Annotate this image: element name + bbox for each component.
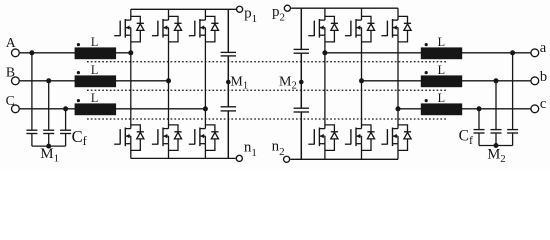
terminal n2 (right DC negative): [284, 156, 290, 162]
svg-text:Cf: Cf: [72, 127, 88, 148]
wire: left bridge negative rail (to n1): [131, 157, 236, 159]
terminal c (output phase c): [531, 105, 539, 113]
svg-text:L: L: [438, 63, 445, 77]
inductor L (input, phase A): [75, 43, 117, 59]
svg-text:L: L: [438, 91, 445, 105]
transistor Q11 (right bridge leg 2 bottom) (MOSFET): [345, 81, 362, 160]
node M2 (right DC-link midpoint): [299, 80, 304, 85]
diode D2 (antiparallel): [169, 16, 182, 42]
capacitor Cf (output, phase a): [507, 130, 518, 146]
transistor Q1 (left bridge leg 1 top) (MOSFET): [114, 9, 131, 53]
transistor Q6 (left bridge leg 3 bottom) (MOSFET): [189, 109, 206, 159]
svg-text:n2: n2: [272, 139, 285, 158]
wire phase B from terminal B to left bridge leg: [19, 80, 168, 82]
dashed line (magnetic coupling path, row B): [87, 89, 447, 91]
junction: phase B at left bridge leg 2: [166, 78, 171, 83]
svg-text:c: c: [540, 96, 546, 112]
dashed line (magnetic coupling path, row A): [87, 61, 447, 63]
svg-text:Cf: Cf: [459, 127, 473, 146]
node M2 (output filter star point): [494, 143, 499, 148]
svg-text:A: A: [6, 35, 16, 50]
svg-text:M1: M1: [40, 146, 59, 164]
svg-text:M2: M2: [487, 147, 505, 165]
terminal b (output phase b): [531, 77, 539, 85]
svg-text:L: L: [91, 91, 98, 105]
capacitor Cf (output, phase b): [491, 130, 502, 146]
svg-text:L: L: [438, 35, 445, 49]
transistor Q12 (right bridge leg 3 bottom) (MOSFET): [381, 109, 398, 160]
terminal A (input phase A): [12, 49, 20, 57]
svg-text:M2: M2: [279, 74, 297, 91]
wire phase c from right bridge leg to terminal c: [398, 108, 531, 110]
junction: phase B / input filter capacitor Cf: [46, 78, 51, 83]
junction: phase a / output filter capacitor Cf: [510, 50, 515, 55]
wire: phase c down to Cf: [478, 109, 480, 130]
wire: right DC-link to negative rail: [300, 112, 302, 159]
transistor Q10 (right bridge leg 1 bottom) (MOSFET): [308, 53, 325, 160]
svg-text:n1: n1: [244, 140, 257, 159]
wire: phase A down to Cf: [31, 53, 33, 130]
capacitor Cf (input, phase A): [26, 130, 37, 146]
diode D9 (antiparallel): [398, 16, 411, 42]
junction: phase a at right bridge leg 1: [322, 50, 327, 55]
diode D1 (antiparallel): [131, 16, 144, 42]
inductor L (output, phase c): [421, 99, 462, 115]
junction: phase A at left bridge leg 1: [128, 50, 133, 55]
capacitor C2 (left DC-link lower): [221, 107, 236, 111]
diode D11 (antiparallel): [362, 125, 375, 150]
capacitor C1 (left DC-link upper): [221, 52, 236, 56]
transistor Q7 (right bridge leg 1 top) (MOSFET): [308, 8, 325, 53]
inductor L (output, phase b): [421, 71, 462, 87]
junction: phase C at left bridge leg 3: [203, 106, 208, 111]
junction: phase c / output filter capacitor Cf: [477, 106, 482, 111]
transistor Q5 (left bridge leg 2 bottom) (MOSFET): [152, 81, 169, 159]
wire phase A from terminal A to left bridge leg: [19, 52, 131, 54]
diode D8 (antiparallel): [362, 16, 375, 42]
wire: right DC-link from positive rail down: [300, 8, 302, 49]
transistor Q9 (right bridge leg 3 top) (MOSFET): [381, 8, 398, 109]
svg-text:p2: p2: [272, 4, 285, 23]
diode D5 (antiparallel): [169, 125, 182, 150]
junction: phase c at right bridge leg 3: [396, 106, 401, 111]
terminal p2 (right DC positive): [284, 5, 290, 11]
diode D12 (antiparallel): [398, 125, 411, 150]
wire: phase B down to Cf: [48, 81, 50, 130]
wire: right bridge negative rail (from n2): [290, 158, 398, 160]
wire: left DC-link midpoint segment: [227, 56, 229, 107]
svg-text:L: L: [91, 35, 98, 49]
capacitor C3 (right DC-link upper): [294, 49, 309, 53]
svg-text:p1: p1: [244, 6, 257, 25]
junction: phase b at right bridge leg 2: [359, 78, 364, 83]
inductor L (output, phase a): [421, 43, 462, 59]
wire: phase a down to Cf: [512, 53, 514, 130]
wire phase a from right bridge leg to terminal a: [325, 52, 531, 54]
svg-text:M1: M1: [230, 74, 248, 91]
junction: phase C / input filter capacitor Cf: [63, 106, 68, 111]
terminal n1 (left DC negative): [236, 155, 242, 161]
wire: left DC-link from positive rail down: [227, 9, 229, 52]
inductor L (input, phase B): [75, 71, 117, 87]
diode D3 (antiparallel): [205, 16, 218, 42]
wire: right DC-link midpoint segment: [300, 53, 302, 108]
capacitor C4 (right DC-link lower): [294, 108, 309, 112]
transistor Q4 (left bridge leg 1 bottom) (MOSFET): [114, 53, 131, 159]
node M1 (left DC-link midpoint): [226, 80, 231, 85]
terminal B (input phase B): [12, 77, 20, 85]
junction: phase b / output filter capacitor Cf: [494, 78, 499, 83]
diode D10 (antiparallel): [325, 125, 338, 150]
transistor Q8 (right bridge leg 2 top) (MOSFET): [345, 8, 362, 81]
svg-text:B: B: [6, 65, 15, 80]
wire: right bridge positive rail (from p2): [291, 7, 398, 9]
capacitor Cf (input, phase C): [60, 130, 71, 146]
wire: output filter star bus to node M2: [479, 145, 513, 147]
transistor Q2 (left bridge leg 2 top) (MOSFET): [152, 9, 169, 81]
svg-text:C: C: [6, 93, 15, 108]
terminal C (input phase C): [12, 105, 20, 113]
wire: left bridge positive rail (to p1): [131, 8, 236, 10]
diode D6 (antiparallel): [205, 125, 218, 150]
capacitor Cf (output, phase c): [474, 130, 485, 146]
wire phase b from right bridge leg to terminal b: [362, 80, 532, 82]
diode D4 (antiparallel): [131, 125, 144, 150]
inductor L (input, phase C): [75, 99, 117, 115]
dashed line (magnetic coupling path, row C): [87, 118, 447, 120]
svg-text:a: a: [540, 40, 547, 56]
wire phase C from terminal C to left bridge leg: [19, 108, 205, 110]
svg-text:L: L: [91, 63, 98, 77]
junction: phase A / input filter capacitor Cf: [29, 50, 34, 55]
transistor Q3 (left bridge leg 3 top) (MOSFET): [189, 9, 206, 109]
terminal a (output phase a): [531, 49, 539, 57]
wire: phase b down to Cf: [495, 81, 497, 130]
terminal p1 (left DC positive): [237, 6, 243, 12]
wire: phase C down to Cf: [65, 109, 67, 130]
wire: input filter star bus to node M1: [32, 145, 66, 147]
capacitor Cf (input, phase B): [43, 130, 54, 146]
svg-text:b: b: [540, 69, 547, 85]
wire: left DC-link to negative rail: [227, 111, 229, 158]
diode D7 (antiparallel): [325, 16, 338, 42]
node M1 (input filter star point): [46, 144, 51, 149]
